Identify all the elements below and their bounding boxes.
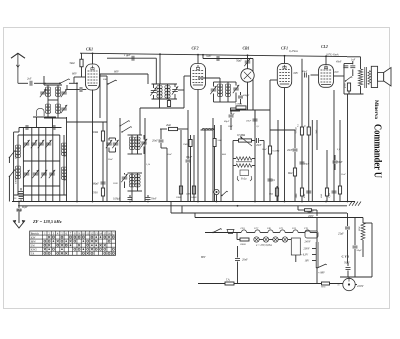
wire CB1 net <box>231 110 270 130</box>
label 88V <box>201 256 206 259</box>
wire v x205 <box>204 130 206 202</box>
wire inner v4 <box>45 128 47 202</box>
trimmer IF1 a <box>150 84 156 99</box>
svg-text:0,032: 0,032 <box>64 175 67 181</box>
capacitor 2nF antenna series <box>18 77 46 86</box>
wire 100V line <box>171 212 347 214</box>
svg-text:50pF: 50pF <box>236 60 242 63</box>
wire IF1 bottom down <box>140 90 184 135</box>
wire sel top <box>316 218 318 232</box>
trimmer row2 d <box>49 170 55 178</box>
svg-text:W.W.: W.W. <box>358 226 361 231</box>
svg-text:CK1: CK1 <box>86 48 93 52</box>
wire right edge v <box>363 223 372 277</box>
label Minerva <box>373 100 379 119</box>
resistor 1kΩ CB1 <box>213 125 222 202</box>
lamp La2 <box>259 237 268 242</box>
lamp La4 <box>278 237 287 242</box>
label 8kΩ <box>222 154 226 156</box>
svg-text:Minerva: Minerva <box>373 100 379 119</box>
wire block tie y186 <box>23 185 59 187</box>
coil osc B <box>135 135 140 154</box>
capacitor 800pF a <box>238 92 250 104</box>
wire CK1 grid <box>74 77 86 83</box>
svg-text:80pF: 80pF <box>304 163 310 166</box>
switch mains voltage <box>316 264 327 284</box>
svg-text:≈ 6,3V: ≈ 6,3V <box>301 254 309 257</box>
wire antenna coil bottom <box>44 117 67 119</box>
switch osc a <box>119 121 130 127</box>
svg-text:0,1MΩ: 0,1MΩ <box>235 103 242 106</box>
capacitor 0,1uF <box>186 110 193 202</box>
svg-text:16V: 16V <box>305 260 310 263</box>
trimmer antenna C-t1 <box>40 89 46 97</box>
coil antenna L4 <box>55 104 60 113</box>
svg-text:80pF: 80pF <box>22 206 28 209</box>
svg-text:1MΩ: 1MΩ <box>295 193 298 198</box>
svg-text:ZF = 128,5 kHz: ZF = 128,5 kHz <box>32 219 62 224</box>
heater CF7 <box>254 227 268 233</box>
resistor bias 1MΩ <box>295 188 304 199</box>
capacitor 50uF b <box>353 218 363 278</box>
wire gimmick line <box>107 58 156 84</box>
wire v x213 <box>212 118 214 202</box>
switch phono <box>221 191 228 196</box>
wire antenna to switch <box>46 82 61 84</box>
svg-text:0,1: 0,1 <box>298 124 300 127</box>
wire CL2 grid <box>311 74 319 76</box>
wire v x327 <box>326 150 328 202</box>
wire bus drop x160 <box>159 54 161 84</box>
resistor 0,5MΩ AVC <box>268 146 279 154</box>
trimmer antenna C-t3 <box>61 105 67 113</box>
svg-text:240Ω: 240Ω <box>191 196 197 199</box>
switch osc b <box>121 127 132 133</box>
svg-text:88V: 88V <box>201 256 206 259</box>
capacitor block bl a <box>19 188 24 193</box>
coil osc C <box>129 173 134 191</box>
svg-text:800pF: 800pF <box>243 94 250 97</box>
trimmer osc d <box>121 173 127 188</box>
label approx <box>338 283 340 287</box>
capacitor 20nF osc <box>152 129 164 148</box>
wire v x317t <box>316 120 318 150</box>
switch osc grid <box>107 80 117 85</box>
capacitor 40nF bias <box>303 191 311 198</box>
svg-text:240V: 240V <box>305 241 311 244</box>
lamp La3 <box>269 237 278 242</box>
label 100V <box>308 210 314 213</box>
svg-text:0,1: 0,1 <box>337 149 340 151</box>
wire bus step a <box>171 202 182 214</box>
trimmer osc b <box>109 138 119 152</box>
wire CK1 right <box>99 76 107 122</box>
svg-text:≈ 98V: ≈ 98V <box>318 272 325 275</box>
svg-text:50nF: 50nF <box>151 198 157 201</box>
svg-text:20nF: 20nF <box>246 120 252 123</box>
capacitor 1pF coupling on bus <box>124 54 134 61</box>
svg-text:CK1: CK1 <box>241 227 245 230</box>
resistor feedback b <box>233 164 255 168</box>
resistor 50kΩ <box>92 122 105 202</box>
svg-text:25μF: 25μF <box>338 233 344 236</box>
wire inner v2 <box>31 128 33 202</box>
svg-text:2500: 2500 <box>92 192 98 195</box>
resistor 0,1MΩ b <box>298 124 304 135</box>
svg-text:0,030: 0,030 <box>15 153 18 159</box>
label 60V at CK1 <box>72 72 78 76</box>
svg-text:2kΩ: 2kΩ <box>166 124 171 127</box>
svg-text:187V, 41mA: 187V, 41mA <box>326 53 339 56</box>
svg-text:40nF: 40nF <box>303 193 306 198</box>
capacitor 50nF bus <box>146 195 157 201</box>
wire heater feed <box>205 232 241 234</box>
wire out bottom <box>344 93 364 95</box>
wire v x233 <box>232 141 234 202</box>
tube CY1 rectifier <box>342 255 356 291</box>
wire osc coil frame <box>128 135 143 154</box>
wire lamp branch <box>237 233 240 240</box>
svg-text:2400: 2400 <box>186 193 192 196</box>
svg-text:20nF: 20nF <box>256 144 262 147</box>
capacitor 0,05uF bus <box>113 195 133 201</box>
capacitor 1nF out <box>350 59 355 77</box>
trimmer row1 a <box>23 140 29 148</box>
heater CB1 <box>267 227 280 233</box>
jack phono <box>214 189 219 201</box>
coil IF1 secondary <box>165 84 170 99</box>
svg-text:0,1μF: 0,1μF <box>186 156 193 159</box>
label 98V <box>318 272 325 275</box>
coil osc 0,0008 <box>15 166 21 184</box>
label 16V sel <box>305 260 317 263</box>
wire bus step b <box>194 213 196 218</box>
svg-text:CL2: CL2 <box>321 45 328 49</box>
label 0,47mA <box>289 50 298 53</box>
wire CF1 down <box>284 88 286 202</box>
coil IF2 primary <box>217 82 222 102</box>
capacitor 80pF left <box>17 210 23 213</box>
wire ground bus 2 <box>18 205 347 207</box>
switch mains <box>212 229 222 234</box>
svg-text:FeLa: FeLa <box>240 178 247 181</box>
wire CL2 anode <box>325 56 327 65</box>
svg-text:CF1: CF1 <box>279 227 283 230</box>
label Commander U <box>372 124 384 178</box>
coil antenna L1 <box>45 85 50 118</box>
wire CL2 grid caps <box>302 59 309 202</box>
capacitor 80pF CB1 <box>224 110 234 123</box>
resistor mains WW <box>321 282 330 289</box>
wire left block right <box>66 117 68 202</box>
switch tone <box>345 77 353 82</box>
svg-text:5kΩ: 5kΩ <box>70 61 76 65</box>
label 200V sel <box>304 248 317 251</box>
switch left outer a <box>9 151 16 164</box>
svg-text:40nF: 40nF <box>302 70 308 73</box>
selector body <box>305 231 318 238</box>
wire CK1 anode to bus <box>92 53 94 64</box>
svg-text:20nF: 20nF <box>262 149 267 151</box>
capacitor 1pF coupling on bus 2 <box>206 55 219 62</box>
svg-text:5k: 5k <box>305 125 307 127</box>
svg-text:5kΩ: 5kΩ <box>316 129 318 133</box>
svg-text:200Ω: 200Ω <box>240 243 246 246</box>
wire osc v x120 <box>119 118 121 202</box>
resistor IF1 sec load <box>167 99 170 107</box>
heater CL2 <box>292 227 305 233</box>
label 187V 41mA <box>326 53 339 56</box>
capacitor top row b <box>53 125 55 130</box>
svg-text:40nF: 40nF <box>336 61 342 64</box>
wire AVC to mixer <box>76 83 78 201</box>
svg-text:8kΩ: 8kΩ <box>288 172 292 175</box>
ground chassis hatch <box>349 202 361 206</box>
capacitor 20nF volume <box>256 138 264 147</box>
svg-text:CF1: CF1 <box>281 47 288 51</box>
wire bottom mains <box>198 283 343 285</box>
svg-text:20nF: 20nF <box>242 259 248 262</box>
wire v x264 <box>263 141 265 202</box>
resistor 0,1MΩ horiz <box>235 103 246 110</box>
label 100V ps <box>298 206 317 216</box>
tube CF1 <box>277 47 291 88</box>
label 0,1 at 255 <box>257 126 260 128</box>
svg-text:Commander U: Commander U <box>372 124 384 178</box>
svg-text:0,1μF: 0,1μF <box>329 192 331 198</box>
label 220V <box>355 284 364 288</box>
svg-text:20nF: 20nF <box>287 149 293 152</box>
coil osc 0,032 right <box>61 135 66 195</box>
svg-text:81V: 81V <box>335 71 340 74</box>
svg-text:1 μμF: 1 μμF <box>124 54 131 57</box>
antenna <box>11 53 25 83</box>
lamp La1 <box>254 237 259 242</box>
svg-text:≈: ≈ <box>338 283 340 287</box>
selector core <box>316 242 318 268</box>
coil IF2 secondary <box>225 82 230 102</box>
wire block tie y135 <box>18 134 60 136</box>
transformer output primary <box>347 57 363 94</box>
capacitor 40nF out <box>334 61 353 95</box>
label ZF frequency <box>32 219 62 224</box>
svg-text:1nF: 1nF <box>351 59 356 62</box>
capacitor 50pF CB1 <box>236 55 251 68</box>
svg-text:50μF: 50μF <box>357 249 363 252</box>
ground <box>13 212 25 228</box>
capacitor grid CK1 <box>67 85 86 92</box>
label 20nF top <box>228 126 233 128</box>
wire v x347b <box>347 94 349 202</box>
resistor det load <box>231 108 240 116</box>
trimmer row1 d <box>45 140 51 148</box>
svg-text:2nF: 2nF <box>27 77 32 80</box>
svg-text:KW: KW <box>31 236 36 239</box>
wire AVC line <box>202 54 253 110</box>
svg-text:MW: MW <box>31 240 36 243</box>
wire grid CF2 <box>178 76 191 90</box>
svg-text:50nF: 50nF <box>167 154 172 156</box>
svg-text:300Ω: 300Ω <box>176 196 182 199</box>
resistor 200Ω lamps <box>240 238 249 246</box>
svg-text:8kΩ: 8kΩ <box>222 154 226 156</box>
coil osc 0,032 right b <box>61 167 66 181</box>
label 81V <box>335 71 340 74</box>
svg-text:2kΩ: 2kΩ <box>320 194 323 198</box>
wire v x278 <box>277 120 279 202</box>
wire v x132 down <box>131 191 133 202</box>
speaker <box>371 66 391 87</box>
label 20nF det2 <box>262 149 267 151</box>
svg-text:CY1: CY1 <box>304 227 308 230</box>
wire 200V line <box>195 217 363 219</box>
node ground bus junctions <box>18 201 348 207</box>
wire antenna coil top <box>44 76 62 85</box>
coil antenna L2 <box>55 85 60 118</box>
svg-text:5kΩ: 5kΩ <box>269 193 273 196</box>
capacitor 20nF AVC top <box>246 119 258 122</box>
trimmer row2 a <box>23 170 29 178</box>
wire v x145 <box>144 118 146 202</box>
label 2400 <box>186 193 192 196</box>
capacitor 50uF CY1 <box>344 262 351 278</box>
wire v x334 <box>333 90 335 202</box>
transformer IF1 frame <box>152 84 178 99</box>
coil antenna L3 <box>45 104 50 113</box>
capacitor 20nF det <box>287 130 298 202</box>
label 6,3V sel <box>301 254 317 257</box>
svg-text:80pF: 80pF <box>93 183 99 186</box>
transformer output core <box>365 67 367 88</box>
label lamps <box>256 244 272 247</box>
hook right <box>250 176 252 181</box>
capacitor 20nF mains <box>235 246 248 284</box>
trimmer osc a <box>106 138 112 152</box>
resistor 5kΩ screen <box>70 53 84 77</box>
svg-text:50μF: 50μF <box>344 262 350 265</box>
tube CL2 <box>319 45 334 87</box>
coil IF1 primary <box>157 84 162 99</box>
capacitor 80pF AF <box>300 162 310 165</box>
hook left <box>237 176 239 181</box>
trimmer IF1 b <box>172 84 178 99</box>
label 240V <box>305 241 311 244</box>
resistor 2kΩ bias <box>320 188 329 198</box>
wire inner v5 <box>52 128 54 202</box>
capacitor 80pF osc <box>93 182 106 185</box>
wire CF2 down <box>197 90 199 202</box>
resistor ballast <box>291 238 300 262</box>
trimmer IF2 a <box>210 82 216 102</box>
svg-text:30nF: 30nF <box>108 159 113 161</box>
label 2500 osc <box>113 183 118 185</box>
resistor 2,5kΩ <box>92 188 105 196</box>
svg-text:0,032: 0,032 <box>64 151 67 157</box>
potentiometer 0,5MΩ volume <box>233 133 255 146</box>
svg-text:W.W.: W.W. <box>321 286 326 289</box>
fuse TA <box>225 279 234 286</box>
svg-text:0,5MΩ: 0,5MΩ <box>237 133 245 137</box>
table band switch <box>30 231 116 255</box>
wire v x107 <box>106 122 108 202</box>
tube CK1 <box>86 48 100 91</box>
heater CY1 <box>304 227 310 233</box>
label 60V line <box>100 70 148 119</box>
wire v x270 <box>269 110 271 202</box>
label 0,1MF <box>337 149 340 151</box>
label 1,5k <box>146 164 151 166</box>
capacitor top row a <box>26 125 28 130</box>
resistor 8kΩ det <box>288 168 297 176</box>
node bus junctions <box>92 53 327 58</box>
svg-text:CB1: CB1 <box>267 227 271 230</box>
capacitor 25uF <box>338 213 350 263</box>
transformer output secondary <box>368 71 371 85</box>
wire left block frame <box>14 128 19 202</box>
trimmer row2 c <box>41 170 47 178</box>
wire block tie y161 <box>23 160 59 162</box>
svg-text:25nF: 25nF <box>341 174 346 176</box>
svg-text:Bereich: Bereich <box>31 233 40 236</box>
wire CK1 cathode down <box>92 90 94 202</box>
wire inner v1 <box>22 128 24 202</box>
svg-text:C Y 1: C Y 1 <box>342 255 350 259</box>
trimmer antenna C-t2 <box>61 89 67 97</box>
resistor WW vert <box>338 186 341 194</box>
svg-text:200V: 200V <box>308 215 314 218</box>
wire h AVC <box>270 129 295 131</box>
resistor 1MΩ osc <box>183 135 192 202</box>
resistor 300Ω <box>176 130 183 202</box>
svg-text:80pF: 80pF <box>224 120 230 123</box>
resistor tone <box>344 83 350 94</box>
heater CK1 <box>241 227 255 233</box>
wire CF1 grid <box>270 80 277 110</box>
coil osc 0,030 <box>15 135 21 195</box>
capacitor 0,1 cath <box>268 179 276 182</box>
label 60V CF1 <box>294 72 299 75</box>
resistor 5kΩ c <box>305 125 311 135</box>
svg-text:LW: LW <box>31 244 35 247</box>
trimmer row1 b <box>31 140 37 148</box>
scanned page sheet <box>4 28 390 309</box>
coil osc A <box>129 135 134 154</box>
wire top B+ bus <box>80 53 347 56</box>
coil osc D <box>135 173 140 191</box>
resistor 5kΩ cath <box>269 186 279 202</box>
trimmer osc c <box>141 135 147 154</box>
transformer IF2 frame <box>216 82 232 102</box>
wire osc coil frame 2 <box>128 173 143 191</box>
wire v x255 <box>254 110 256 202</box>
svg-text:0,1: 0,1 <box>257 126 260 128</box>
svg-text:T.A.: T.A. <box>226 279 230 282</box>
transformer Fe core lines <box>236 161 252 163</box>
connector mains plug <box>227 230 234 234</box>
capacitor 0,1uF bias <box>329 191 337 198</box>
wire inner v6 <box>59 135 61 202</box>
heater CF1 <box>279 227 293 233</box>
transformer field WW <box>358 218 365 258</box>
svg-text:TA: TA <box>31 252 34 255</box>
label 30nF <box>108 159 113 161</box>
resistor feedback a <box>233 157 255 161</box>
resistor 240Ω <box>191 135 197 202</box>
svg-text:0,0008: 0,0008 <box>15 176 18 184</box>
wire h 122 <box>67 121 108 123</box>
wire CF1 anode <box>284 56 286 64</box>
switch antenna band <box>59 79 78 84</box>
